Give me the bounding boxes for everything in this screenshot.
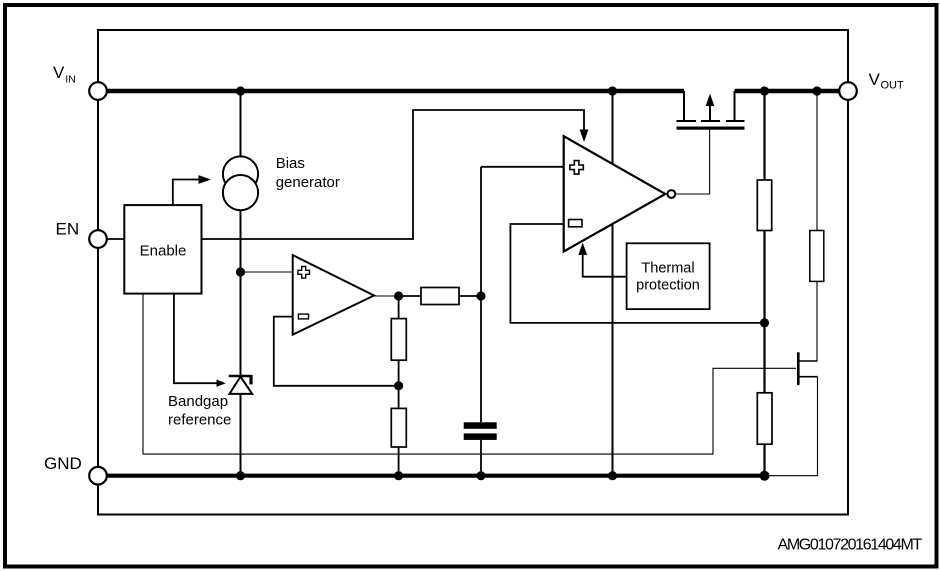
- svg-text:Bias: Bias: [276, 155, 305, 172]
- op-amp U2 (driver): [564, 136, 666, 251]
- bandgap zener diode cathode bar: [229, 375, 251, 377]
- junction dot feedback node: [394, 381, 403, 390]
- junction dot Rb-GND: [394, 471, 403, 480]
- junction dot R3-GND: [760, 471, 770, 481]
- svg-text:GND: GND: [44, 454, 82, 473]
- wire: U1 output node down to R divider: [398, 296, 400, 319]
- wire: R1 to divider tap: [763, 231, 765, 393]
- wire: Enable bottom to bandgap arrow: [174, 294, 218, 384]
- svg-text:Enable: Enable: [140, 243, 187, 260]
- PMOS source contact bar: [677, 120, 697, 122]
- wire: bias node to error amp + input (thin): [241, 271, 293, 273]
- Enable block: [124, 205, 201, 294]
- svg-text:Bandgap: Bandgap: [168, 393, 228, 410]
- VOUT terminal: [839, 82, 857, 100]
- wire: U1 output to series resistor: [399, 295, 421, 297]
- junction dot amp supply-GND: [608, 471, 617, 480]
- PMOS pass transistor: source stub: [683, 91, 685, 121]
- resistor Ra (vertical): [391, 319, 406, 361]
- wire: Ra to feedback node: [398, 360, 400, 408]
- svg-text:IN: IN: [65, 74, 76, 86]
- svg-text:V: V: [869, 70, 881, 89]
- bandgap zener diode triangle: [230, 377, 253, 394]
- svg-text:generator: generator: [276, 174, 340, 191]
- PMOS bulk arrow to VIN rail: [709, 103, 711, 121]
- U1 plus symbol: [298, 267, 310, 279]
- junction dot bias node: [236, 267, 245, 276]
- junction dot cap-GND: [476, 471, 485, 480]
- junction dot bandgap-GND: [236, 471, 245, 480]
- resistor Rb (vertical): [391, 408, 406, 447]
- wire: EN terminal to Enable block: [106, 238, 124, 240]
- op-amp U1 (error amplifier): [293, 255, 374, 335]
- svg-text:reference: reference: [168, 411, 231, 428]
- capacitor C top plate: [464, 422, 497, 429]
- wire: capacitor to GND bus: [480, 440, 482, 476]
- wire: series resistor to cap node: [459, 295, 481, 297]
- wire: GND bus: [105, 474, 765, 478]
- junction dot VOUT-R1: [760, 86, 769, 95]
- wire+arrow: Enable to bias generator: [173, 180, 200, 206]
- wire: U2 output to PMOS gate: [675, 130, 709, 195]
- wire: VIN rail left segment: [105, 89, 684, 94]
- NMOS source wire: [800, 376, 818, 378]
- bias generator current-source circles: [223, 156, 258, 210]
- resistor R2: [810, 231, 824, 282]
- junction dot U1 output: [394, 291, 403, 300]
- wire: R3 to GND bus: [763, 444, 765, 476]
- wire: Enable bottom to NMOS gate (long thin route): [143, 294, 796, 455]
- wire: bias generator to bandgap cathode: [240, 210, 242, 376]
- wire: bias/bandgap vertical from VIN rail to bias generator: [240, 91, 242, 157]
- zener tick: [249, 375, 252, 384]
- junction dot VOUT-R2: [812, 86, 821, 95]
- PMOS bulk contact bar: [701, 120, 720, 122]
- GND terminal: [89, 467, 107, 485]
- EN terminal: [89, 230, 107, 248]
- junction dot VIN-amp supply: [608, 86, 617, 95]
- wire+arrow: thermal protection to U2 bottom edge: [583, 254, 627, 277]
- wire: VIN rail to big amp top supply: [612, 91, 614, 164]
- wire: U2 inverting input from divider tap: [510, 224, 763, 323]
- wire: bandgap anode to GND bus: [240, 394, 242, 476]
- wire: cap node vertical (amp + input down to capacitor): [480, 167, 482, 422]
- wire: U1 inverting feedback loop: [274, 317, 399, 386]
- wire: GND bus thin extension to NMOS source: [765, 377, 818, 476]
- wire: big amp + input horizontal: [481, 166, 564, 168]
- Thermal protection block: [627, 243, 710, 309]
- wire: Rb to GND bus: [398, 447, 400, 476]
- PMOS gate bar: [677, 127, 745, 130]
- svg-text:protection: protection: [636, 278, 700, 294]
- wire: Enable output to big amp (right then up then right): [202, 110, 585, 239]
- wire: VOUT rail to R1: [763, 91, 765, 180]
- resistor R series (horizontal): [421, 288, 459, 305]
- svg-text:V: V: [53, 63, 65, 82]
- svg-text:AMG010720161404MT: AMG010720161404MT: [778, 537, 923, 554]
- capacitor C bottom plate: [464, 433, 497, 440]
- wire: big amp bottom supply to GND bus: [612, 225, 614, 476]
- U2 output bubble: [668, 190, 676, 198]
- VIN terminal: [89, 82, 107, 100]
- resistor R3: [757, 393, 772, 444]
- U2 plus symbol: [570, 161, 583, 175]
- svg-text:OUT: OUT: [881, 80, 905, 92]
- U1 minus symbol: [298, 314, 308, 319]
- wire: VIN rail right segment: [735, 89, 841, 94]
- wire: VOUT rail to R2 (thin): [816, 91, 818, 231]
- arrowhead toward bandgap diode: [217, 380, 226, 387]
- IC boundary box: [98, 30, 848, 515]
- junction dot cap node: [476, 291, 485, 300]
- U2 minus symbol: [569, 220, 582, 227]
- PMOS drain contact bar: [726, 120, 745, 122]
- wire: U1 output (thin): [374, 295, 399, 297]
- NMOS transistor channel bar: [797, 352, 800, 385]
- svg-text:Thermal: Thermal: [641, 261, 694, 277]
- svg-text:EN: EN: [56, 220, 80, 239]
- resistor R1: [757, 180, 771, 231]
- junction dot VIN-bias: [236, 86, 245, 95]
- PMOS drain stub: [734, 91, 736, 121]
- arrowhead into big amp top edge: [580, 130, 589, 143]
- junction dot divider tap: [760, 318, 769, 327]
- wire: R2 down to NMOS drain: [816, 281, 818, 361]
